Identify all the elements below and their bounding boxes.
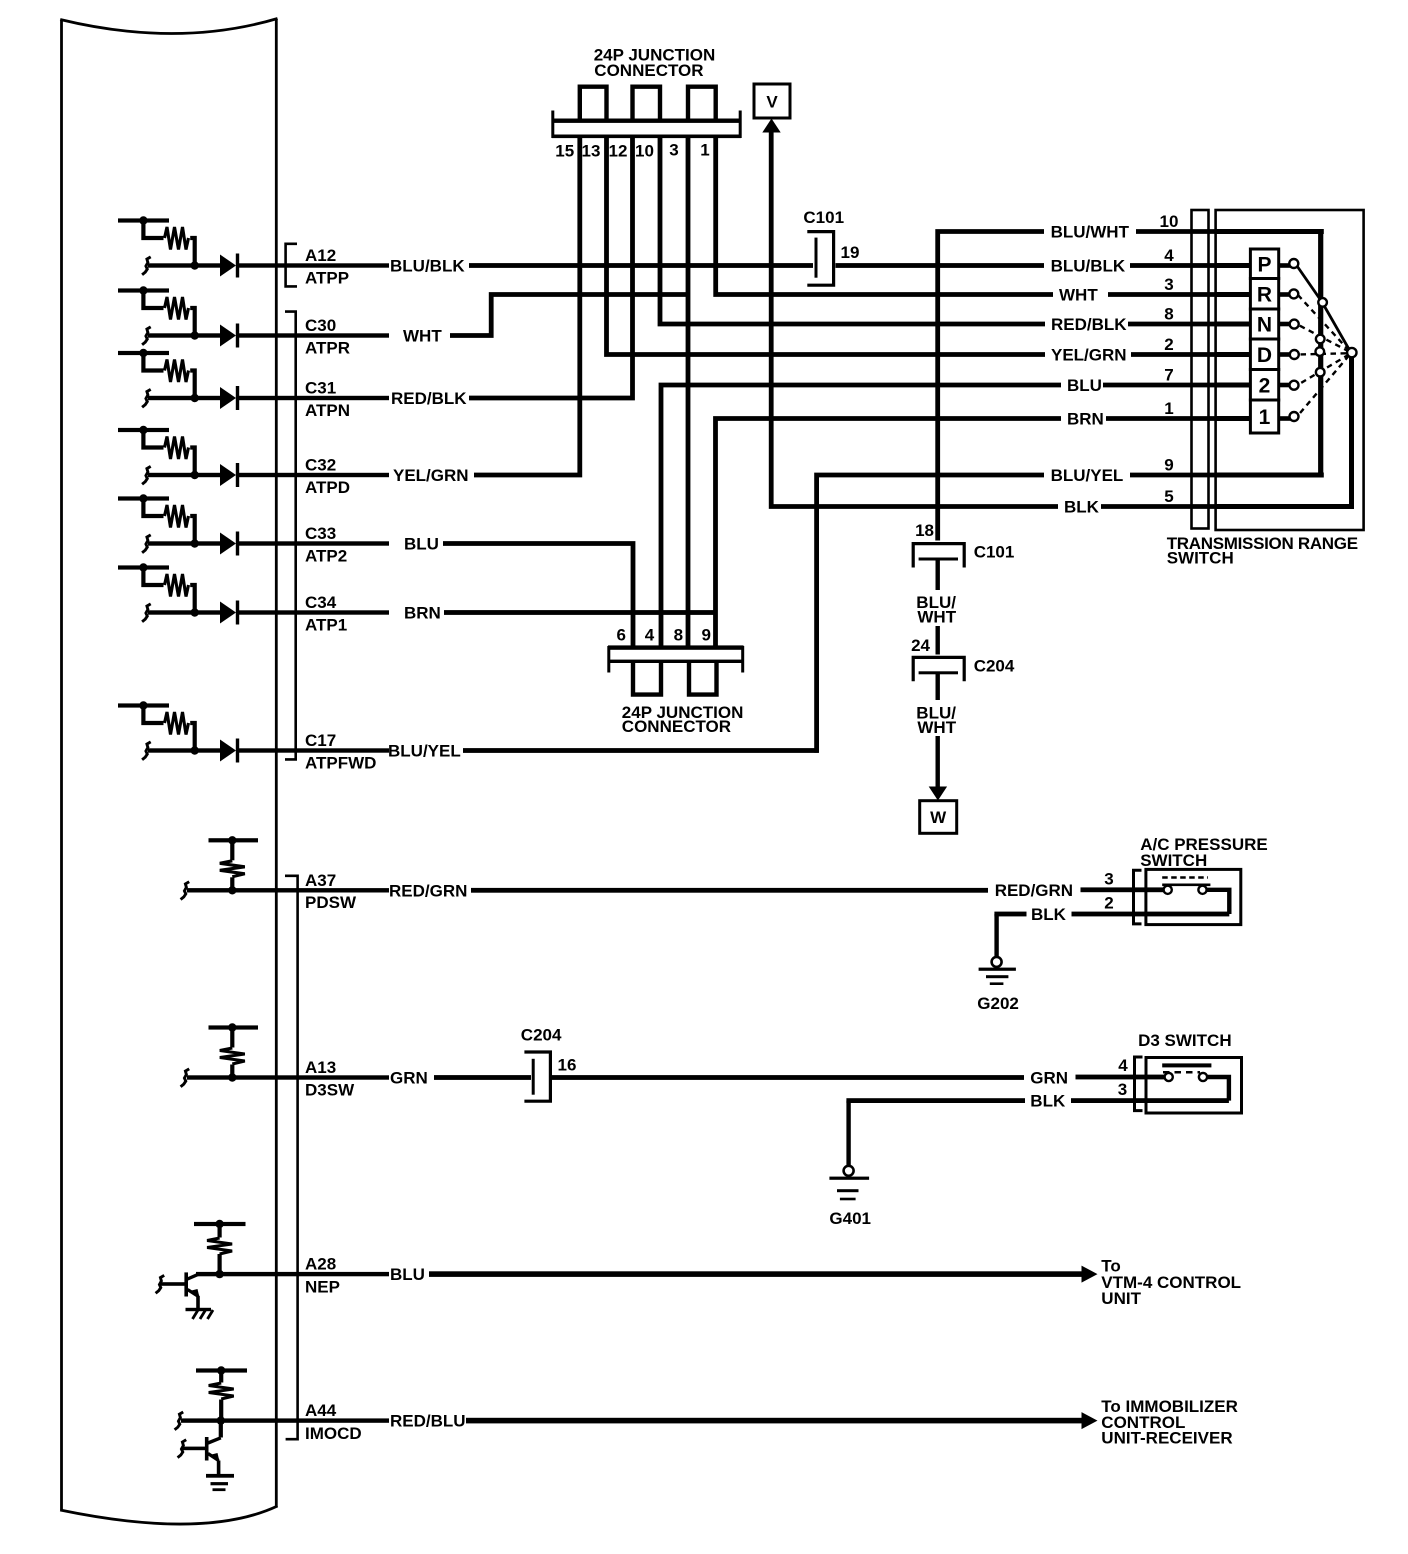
base lead A28 — [161, 1282, 185, 1286]
svg-text:GRN: GRN — [390, 1069, 428, 1088]
resistor R-C34 — [143, 568, 163, 586]
svg-text:D: D — [1257, 344, 1272, 367]
svg-text:BRN: BRN — [1067, 410, 1104, 429]
junction dot A37 — [228, 886, 236, 894]
resistor R-C30 — [143, 291, 163, 309]
label masks — [1044, 223, 1136, 241]
svg-text:4: 4 — [1164, 246, 1174, 265]
contact circle 2 — [1290, 381, 1299, 390]
svg-text:BLU/YEL: BLU/YEL — [1051, 466, 1124, 485]
24P junction connector (upper) body — [552, 119, 741, 123]
svg-text:ATP2: ATP2 — [305, 546, 347, 565]
svg-text:G202: G202 — [977, 994, 1019, 1013]
svg-text:ATPP: ATPP — [305, 268, 349, 287]
bar contact circle (P) — [1318, 298, 1327, 307]
svg-text:WHT: WHT — [1059, 286, 1098, 305]
wire junction pin 3 to lower junction pin 8 — [686, 136, 691, 647]
svg-text:PDSW: PDSW — [305, 893, 357, 912]
rotor dashed to D — [1298, 353, 1346, 354]
rotor dashed to 1 — [1298, 356, 1350, 417]
contact circle R — [1289, 289, 1298, 298]
svg-text:9: 9 — [701, 626, 710, 645]
A/C switch internal return — [1206, 890, 1229, 914]
svg-text:9: 9 — [1164, 456, 1173, 475]
bridge staple pins 12-10 — [633, 87, 661, 119]
svg-text:CONNECTOR: CONNECTOR — [622, 717, 731, 736]
svg-text:A28: A28 — [305, 1255, 336, 1274]
wire into W — [936, 736, 940, 788]
svg-text:C31: C31 — [305, 379, 336, 398]
svg-text:G401: G401 — [829, 1209, 871, 1228]
wire RED/GRN to A/C switch — [1081, 887, 1165, 892]
svg-text:19: 19 — [841, 243, 860, 262]
resistor R-A37 — [230, 840, 234, 860]
position contact box R — [1250, 279, 1278, 310]
node stub A37 top — [209, 838, 259, 842]
arrow into V — [762, 119, 780, 133]
contact circle N — [1290, 320, 1299, 329]
svg-text:D3 SWITCH: D3 SWITCH — [1138, 1031, 1232, 1050]
svg-text:A37: A37 — [305, 871, 336, 890]
svg-text:BLU: BLU — [390, 1265, 425, 1284]
wire C33 BLU drop to junction pin 6 — [443, 544, 633, 648]
junction dot A37 pull-up — [228, 836, 236, 844]
junction dot C31 — [191, 394, 199, 402]
wire C30 to label — [239, 333, 389, 337]
contact circle D — [1290, 350, 1299, 359]
svg-text:R: R — [1257, 283, 1272, 306]
resistor R-C17 — [143, 706, 163, 724]
wire A28 BLU run — [429, 1271, 1083, 1277]
diode D-C17 — [220, 740, 236, 762]
diode D-C34 — [220, 602, 236, 624]
junction dot A28 pull-up — [215, 1220, 223, 1228]
wire lower junction pin 9 riser / switch pin 1 (BRN) — [716, 419, 1217, 648]
wire-break squiggle C17 — [142, 742, 151, 760]
svg-text:N: N — [1257, 314, 1272, 337]
svg-text:6: 6 — [616, 626, 625, 645]
svg-text:24: 24 — [911, 636, 930, 655]
junction dot C34 — [191, 608, 199, 616]
svg-text:C30: C30 — [305, 316, 336, 335]
node stub C33 top — [118, 496, 169, 500]
resistor R-A44 — [219, 1371, 223, 1383]
node stub A12 top — [118, 218, 169, 222]
svg-text:BRN: BRN — [404, 604, 441, 623]
wire BLK to A/C switch — [1072, 912, 1230, 917]
arrow into W — [929, 787, 947, 801]
svg-text:A12: A12 — [305, 246, 336, 265]
junction dot C17 — [191, 746, 199, 754]
transistor Q1 (A28) — [184, 1272, 188, 1296]
resistor R-A13 — [230, 1028, 234, 1048]
svg-text:ATP1: ATP1 — [305, 615, 347, 634]
svg-text:C204: C204 — [521, 1025, 562, 1044]
svg-text:3: 3 — [1164, 275, 1173, 294]
junction dot C34 pull-up — [139, 563, 147, 571]
svg-text:C33: C33 — [305, 524, 336, 543]
wire junction pin 10 to switch pin 8 — [660, 136, 1216, 324]
contact stubs — [1279, 263, 1291, 268]
contact circle 1 — [1290, 412, 1299, 421]
svg-text:SWITCH: SWITCH — [1167, 548, 1234, 567]
svg-text:RED/BLK: RED/BLK — [391, 389, 467, 408]
junction dot C32 — [191, 471, 199, 479]
junction dot A44 pull-up — [217, 1366, 225, 1374]
svg-text:C101: C101 — [803, 208, 844, 227]
node stub A44 top — [196, 1368, 247, 1372]
A/C contact circle left — [1164, 886, 1172, 894]
junction dot A12 — [191, 261, 199, 269]
switch pivot feed pin 5 — [1216, 504, 1354, 509]
wire A44 internal — [181, 1418, 389, 1422]
wire C32 YEL/GRN riser to junction pin 15 — [474, 136, 580, 475]
svg-text:3: 3 — [669, 141, 678, 160]
svg-text:RED/BLK: RED/BLK — [1051, 315, 1127, 334]
junction dot C31 pull-up — [139, 349, 147, 357]
wire C32 to label — [239, 473, 389, 477]
wire A37 RED/GRN run — [471, 888, 988, 893]
svg-text:BLU: BLU — [1067, 376, 1102, 395]
diode D-C32 — [220, 464, 236, 486]
svg-text:BLK: BLK — [1030, 1092, 1066, 1111]
D3 contact circle left — [1165, 1073, 1173, 1081]
diode D-C30 — [220, 325, 236, 347]
ground (chassis) at Q1 emitter — [196, 1296, 200, 1310]
rotor dashed to 2 — [1298, 355, 1350, 386]
wire A12 BLU/BLK to C101 — [469, 263, 813, 268]
wire to C204 pin 24 — [936, 626, 940, 655]
node stub C31 top — [118, 351, 169, 355]
bar contact circle (2) — [1316, 368, 1325, 377]
arrow to immobilizer control unit — [1082, 1412, 1098, 1429]
svg-text:V: V — [766, 93, 778, 112]
wire A12 internal — [148, 263, 221, 267]
ground G401 symbol — [844, 1166, 854, 1176]
svg-text:ATPR: ATPR — [305, 338, 350, 357]
svg-text:2: 2 — [1164, 335, 1173, 354]
wire C34 internal — [148, 610, 221, 614]
bridge staple pins 15-13 — [580, 87, 607, 119]
svg-text:10: 10 — [635, 142, 654, 161]
wire C17 to label — [239, 748, 389, 752]
wire A13 GRN run to C204 — [434, 1075, 531, 1080]
junction dot C30 pull-up — [139, 286, 147, 294]
wire BLK to ground G202 — [994, 914, 998, 957]
svg-text:3: 3 — [1118, 1080, 1127, 1099]
svg-text:4: 4 — [1118, 1056, 1128, 1075]
wire BLK corner to ground G401 — [846, 1101, 850, 1166]
junction dot A12 pull-up — [139, 216, 147, 224]
D3 switch connector bracket — [1135, 1057, 1143, 1111]
wire-break squiggle A44 base — [178, 1440, 187, 1458]
resistor R-C32 — [143, 430, 163, 448]
A/C pressure switch body — [1146, 869, 1241, 924]
ground G202 symbol — [992, 957, 1002, 967]
connector C204 pin 24 — [913, 657, 964, 681]
svg-text:RED/GRN: RED/GRN — [995, 881, 1073, 900]
rotor pivot circle — [1347, 348, 1356, 357]
svg-text:GRN: GRN — [1030, 1069, 1068, 1088]
rotor solid contact line (P position) — [1296, 265, 1350, 352]
bridge staple pins 3-1 — [688, 87, 716, 119]
wire-break squiggle A12 — [142, 257, 151, 275]
base lead A44 — [183, 1447, 206, 1451]
wire-break squiggle A44 — [175, 1412, 184, 1430]
svg-text:C204: C204 — [974, 656, 1015, 675]
svg-text:D3SW: D3SW — [305, 1080, 355, 1099]
connector C204 pin 16 — [524, 1052, 550, 1101]
connector bracket A37-A44 group — [285, 876, 298, 1439]
svg-text:12: 12 — [609, 142, 628, 161]
position contact box N — [1250, 309, 1278, 339]
connector bracket A12 — [286, 244, 297, 287]
svg-text:BLU/YEL: BLU/YEL — [388, 742, 461, 761]
svg-text:8: 8 — [674, 626, 683, 645]
svg-text:WHT: WHT — [403, 327, 442, 346]
svg-text:RED/GRN: RED/GRN — [389, 882, 467, 901]
wire lower junction pin 4 to switch pin 7 (BLU) — [661, 385, 1216, 647]
wire A37 internal — [187, 888, 389, 892]
node stub A13 top — [209, 1025, 259, 1029]
svg-text:YEL/GRN: YEL/GRN — [393, 466, 469, 485]
svg-text:10: 10 — [1160, 212, 1179, 231]
svg-text:WHT: WHT — [917, 718, 956, 737]
contact circle P — [1289, 259, 1298, 268]
svg-text:UNIT-RECEIVER: UNIT-RECEIVER — [1101, 1429, 1232, 1448]
svg-text:BLK: BLK — [1031, 905, 1067, 924]
wire A13 internal — [187, 1075, 389, 1079]
rotor dashed to R — [1298, 295, 1350, 351]
wire-break squiggle A28 base — [156, 1275, 165, 1293]
wire C32 internal — [148, 473, 221, 477]
wire C33 internal — [148, 541, 221, 545]
position contact box 1 — [1250, 400, 1278, 433]
svg-text:16: 16 — [558, 1055, 577, 1074]
24P junction connector (lower) body — [608, 645, 744, 649]
svg-text:CONNECTOR: CONNECTOR — [594, 61, 703, 80]
svg-text:ATPFWD: ATPFWD — [305, 753, 376, 772]
wire BLK to D3 switch — [1071, 1098, 1229, 1103]
transistor Q2 (A44) — [219, 1421, 223, 1438]
wire A44 RED/BLU run — [466, 1418, 1083, 1424]
wire-break squiggle C30 — [142, 327, 151, 345]
wire-break squiggle A13 — [181, 1069, 190, 1087]
wire GRN to D3 switch — [1076, 1075, 1167, 1080]
wire C31 internal — [148, 396, 221, 400]
junction dot C33 — [191, 539, 199, 547]
bridge staple pins 6-4 — [633, 663, 661, 695]
wire C34 to label — [239, 610, 389, 614]
bridge staple pins 8-9 — [689, 663, 717, 695]
junction dot A13 pull-up — [228, 1023, 236, 1031]
wire C17 internal — [148, 748, 221, 752]
ground distribution W box — [920, 801, 957, 834]
svg-text:C101: C101 — [974, 542, 1015, 561]
bar contact circle (N) — [1316, 335, 1325, 344]
A/C switch contacts — [1162, 884, 1210, 887]
svg-text:3: 3 — [1104, 869, 1113, 888]
resistor R-A12 — [143, 221, 163, 239]
transmission range switch body — [1216, 210, 1364, 530]
wire C31 to label — [239, 396, 389, 400]
node stub C34 top — [118, 565, 169, 569]
wire C31 RED/BLK riser to junction pin 12 — [469, 136, 633, 398]
wire C30 WHT jog — [450, 295, 690, 336]
svg-text:1: 1 — [1259, 406, 1271, 429]
svg-text:BLU/WHT: BLU/WHT — [1051, 223, 1130, 242]
svg-text:SWITCH: SWITCH — [1140, 851, 1207, 870]
junction dot A28 — [215, 1270, 223, 1278]
junction dot C17 pull-up — [139, 701, 147, 709]
voltage source V box — [754, 84, 790, 118]
svg-text:7: 7 — [1164, 366, 1173, 385]
control unit boundary (torn-edge box) — [60, 19, 277, 1525]
svg-text:2: 2 — [1104, 894, 1113, 913]
wire-break squiggle A37 — [181, 882, 190, 900]
svg-text:IMOCD: IMOCD — [305, 1424, 362, 1443]
svg-text:A13: A13 — [305, 1058, 336, 1077]
svg-text:15: 15 — [555, 142, 574, 161]
wire BLU/BLK C101 to switch pin 4 — [836, 263, 1217, 268]
wire GRN C204 to label — [552, 1075, 1024, 1080]
wire BLU/WHT between connectors — [936, 559, 940, 590]
svg-text:BLU/BLK: BLU/BLK — [390, 257, 465, 276]
position contact box D — [1250, 339, 1278, 370]
svg-text:2: 2 — [1259, 374, 1271, 397]
wire V to switch pin 5 (BLK) — [771, 131, 1216, 507]
A/C pressure switch connector bracket — [1134, 870, 1142, 924]
svg-text:WHT: WHT — [917, 608, 956, 627]
transmission range switch connector strip — [1192, 210, 1209, 529]
svg-text:1: 1 — [700, 141, 709, 160]
connector C101 pin 19 — [807, 232, 833, 286]
junction dot A44 — [217, 1416, 225, 1424]
svg-text:18: 18 — [915, 521, 934, 540]
svg-text:UNIT: UNIT — [1101, 1289, 1141, 1308]
resistor R-C33 — [143, 499, 163, 517]
arrow to VTM-4 control unit — [1082, 1266, 1098, 1283]
wire BLU/WHT switch pin 10 drop — [938, 232, 1216, 541]
svg-text:8: 8 — [1164, 305, 1173, 324]
D3 switch internal return — [1207, 1077, 1229, 1101]
wire A12 to label — [239, 263, 389, 267]
rotor dashed to N — [1298, 325, 1350, 352]
svg-text:C34: C34 — [305, 593, 337, 612]
svg-text:ATPN: ATPN — [305, 401, 350, 420]
node stub C32 top — [118, 428, 169, 432]
wire A28 internal — [196, 1272, 389, 1276]
diode D-A12 — [220, 255, 236, 277]
svg-text:YEL/GRN: YEL/GRN — [1051, 346, 1127, 365]
node stub C30 top — [118, 288, 169, 292]
svg-text:BLU: BLU — [404, 535, 439, 554]
D3 switch body — [1146, 1058, 1242, 1114]
svg-text:1: 1 — [1164, 399, 1173, 418]
position contact box P — [1250, 249, 1278, 279]
wire C34 BRN to junction pin 9 tee — [444, 610, 716, 615]
wire C17 BLU/YEL to riser — [463, 748, 819, 753]
wire-break squiggle C31 — [142, 389, 151, 407]
svg-text:NEP: NEP — [305, 1277, 340, 1296]
wire-break squiggle C34 — [142, 604, 151, 622]
diode D-C33 — [220, 533, 236, 555]
svg-text:A44: A44 — [305, 1401, 337, 1420]
D3 switch blade (open) — [1162, 1063, 1211, 1067]
diode D-C31 — [220, 387, 236, 409]
bar contact circle (D) — [1316, 347, 1325, 356]
node stub A28 top — [194, 1222, 246, 1226]
wire BLU/YEL riser — [817, 475, 1216, 753]
connector C101 pin 18 — [913, 544, 964, 568]
junction dot C30 — [191, 331, 199, 339]
svg-text:C32: C32 — [305, 456, 336, 475]
wire-break squiggle C32 — [142, 466, 151, 484]
junction dot C33 pull-up — [139, 494, 147, 502]
svg-text:C17: C17 — [305, 731, 336, 750]
junction dot C32 pull-up — [139, 426, 147, 434]
svg-text:P: P — [1257, 253, 1271, 276]
node stub C17 top — [118, 703, 169, 707]
wire C33 to label — [239, 541, 389, 545]
svg-text:W: W — [930, 808, 947, 827]
wire junction pin 13 to switch pin 2 — [607, 136, 1217, 355]
resistor R-A28 — [218, 1224, 222, 1238]
wire below C204 — [936, 673, 940, 700]
svg-text:13: 13 — [582, 142, 601, 161]
svg-text:BLU/BLK: BLU/BLK — [1051, 257, 1126, 276]
D3 contact circle right — [1199, 1073, 1207, 1081]
A/C contact circle right — [1198, 886, 1206, 894]
position contact box 2 — [1250, 370, 1278, 401]
resistor R-C31 — [143, 353, 163, 371]
switch common bar pins 10-9 — [1318, 229, 1323, 477]
wire junction pin 1 to switch pin 3 (WHT) — [716, 136, 1216, 295]
connector bracket C30-C17 group — [285, 312, 296, 760]
svg-text:RED/BLU: RED/BLU — [390, 1412, 466, 1431]
contact feed wires — [1216, 263, 1250, 268]
junction dot A13 — [228, 1073, 236, 1081]
wire-break squiggle C33 — [142, 535, 151, 553]
svg-text:BLK: BLK — [1064, 498, 1100, 517]
svg-text:ATPD: ATPD — [305, 478, 350, 497]
svg-text:5: 5 — [1164, 487, 1173, 506]
svg-text:4: 4 — [645, 626, 655, 645]
ground (earth) at Q2 emitter — [217, 1461, 221, 1475]
wire C30 internal — [148, 333, 221, 337]
